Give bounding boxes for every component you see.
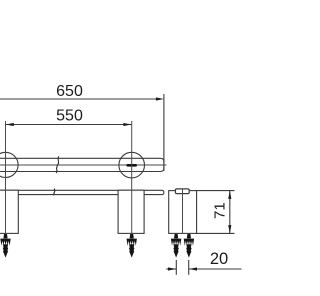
right flange circle (119, 152, 145, 178)
side view screw right (184, 234, 194, 258)
dimension 71 line (229, 191, 231, 234)
dimension 20 right arrow (189, 267, 197, 270)
dimension 20 right line (189, 268, 242, 270)
front view rail tube (0, 158, 164, 171)
dimension 20 left line (166, 268, 176, 270)
right post (top view) (118, 190, 144, 233)
top view rail bar (0, 190, 164, 194)
dimension 20 left extension line (175, 260, 177, 275)
svg-text:20: 20 (210, 250, 228, 268)
screw under right post (127, 234, 137, 258)
left flange circle (0, 152, 18, 177)
screw under left post (0, 234, 10, 258)
svg-text:550: 550 (56, 108, 83, 125)
dimension 650 extension line (163, 94, 165, 171)
dimension 71 top arrow (228, 191, 231, 199)
dimension 550 right arrow (123, 123, 131, 126)
dimension 20 left arrow (168, 267, 176, 270)
left center line (5, 121, 7, 233)
dimension 71 bottom extension line (196, 232, 234, 234)
side view screw left (171, 234, 181, 258)
left post (top view) (0, 190, 18, 233)
dimension 550 line (6, 124, 132, 126)
side view tube cross-section notch (175, 189, 189, 194)
svg-text:71: 71 (212, 202, 229, 219)
dimension 650 right arrow (156, 97, 164, 100)
svg-text:650: 650 (56, 83, 83, 100)
front view rail center line (0, 164, 167, 166)
dimension 650 line (0, 98, 161, 100)
side view post center line (182, 190, 184, 234)
dimension 71 bottom arrow (228, 225, 231, 233)
side view post (169, 191, 197, 234)
right center line (131, 121, 133, 233)
right flange center dash (126, 164, 137, 167)
break mark on front rail (56, 156, 59, 173)
dimension 71 top extension line (196, 190, 234, 192)
dimension 550 left arrow (6, 123, 14, 126)
break mark on top view bar (54, 189, 55, 196)
dimension 20 right extension line (188, 260, 190, 275)
